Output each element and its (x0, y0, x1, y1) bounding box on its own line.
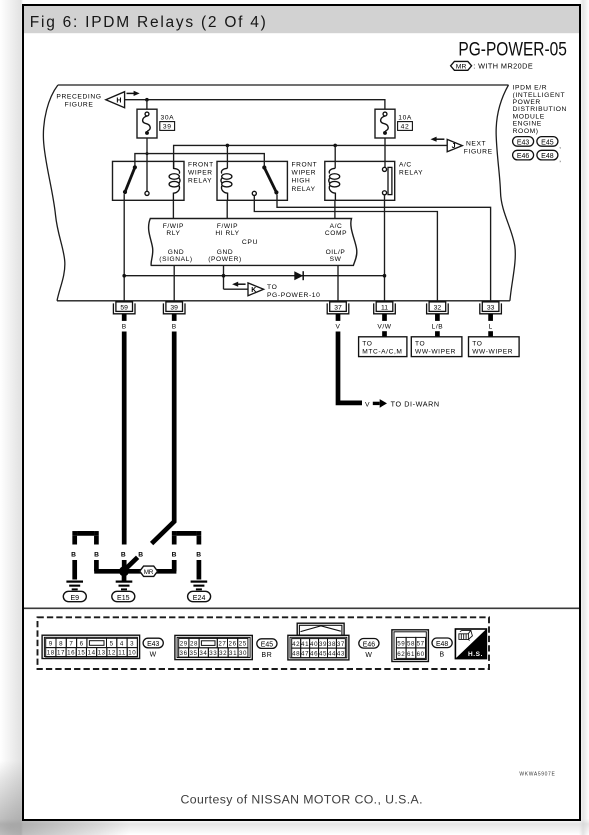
fuse 30A (#39) (137, 109, 175, 138)
IPDM E/R outer torn-edge boundary (43, 85, 515, 301)
svg-text:28: 28 (190, 641, 198, 648)
svg-text:V: V (365, 401, 370, 408)
svg-text:37: 37 (334, 304, 342, 311)
svg-text:10: 10 (128, 650, 136, 657)
legend connector E48 face (392, 630, 429, 662)
node: junction fuse output / contact feed rail (146, 152, 149, 155)
svg-text:WIPER: WIPER (292, 170, 317, 177)
svg-text:E15: E15 (117, 594, 130, 602)
legend dashed frame (38, 617, 490, 669)
svg-text:H: H (116, 98, 121, 105)
svg-text:TO DI-WARN: TO DI-WARN (391, 399, 440, 408)
node: junction J-line / relay2 coil (226, 144, 230, 148)
ground symbol E9 (66, 581, 83, 591)
svg-text:V/W: V/W (377, 324, 391, 331)
CPU box with torn side edges (149, 219, 357, 266)
svg-text:,: , (559, 158, 561, 164)
svg-text:PG-POWER-05: PG-POWER-05 (458, 39, 567, 60)
svg-text:COMP: COMP (325, 230, 347, 237)
svg-text:36: 36 (180, 650, 188, 657)
svg-text:HI RLY: HI RLY (215, 230, 239, 237)
ground symbol E15 (116, 571, 133, 590)
relay K2 switch arm (252, 165, 278, 195)
svg-text:Fig 6: IPDM Relays (2 Of 4): Fig 6: IPDM Relays (2 Of 4) (30, 14, 266, 31)
svg-text:FRONT: FRONT (292, 161, 318, 168)
svg-text:5: 5 (110, 640, 114, 647)
MR hexagon tag on ground bus (140, 566, 158, 576)
svg-text:B: B (121, 551, 126, 558)
svg-text:42: 42 (401, 123, 410, 130)
svg-text:(SIGNAL): (SIGNAL) (159, 256, 192, 263)
svg-text:B: B (439, 651, 444, 658)
flag H: PRECEDING FIGURE (56, 91, 139, 109)
ground symbol E24 (191, 581, 208, 591)
svg-text:44: 44 (328, 650, 336, 657)
node: junction H-line / 30A fuse (145, 98, 149, 102)
svg-text:B: B (172, 324, 177, 331)
svg-text:3: 3 (130, 640, 134, 647)
svg-text:62: 62 (397, 651, 405, 658)
svg-text:46: 46 (310, 650, 318, 657)
label FRONT WIPER RELAY (188, 161, 214, 184)
legend oval E48 + color B (432, 638, 452, 658)
legend oval E45 + color BR (257, 639, 277, 659)
svg-text:GND: GND (217, 249, 233, 256)
svg-text:17: 17 (57, 650, 65, 657)
svg-text:HIGH: HIGH (292, 178, 311, 185)
wire: relay2 arm contact to pin 33 (277, 195, 491, 303)
svg-text:B: B (94, 551, 99, 558)
connector oval E45 (537, 137, 562, 150)
wire color labels B row (71, 551, 202, 558)
legend E46 pin numbers (292, 641, 345, 658)
wire stub pin 32 to box TO WW-WIPER (435, 331, 440, 337)
label A/C RELAY (399, 161, 423, 176)
svg-text:29: 29 (180, 641, 188, 648)
svg-text:MTC-A/C,M: MTC-A/C,M (362, 348, 402, 355)
svg-text:B: B (172, 551, 177, 558)
svg-text:13: 13 (98, 650, 106, 657)
svg-text:58: 58 (407, 641, 415, 648)
svg-text:: WITH MR20DE: : WITH MR20DE (473, 62, 533, 71)
wire stub pin 59 + color label B (122, 314, 127, 331)
svg-text:K: K (251, 287, 256, 294)
svg-text:GND: GND (168, 249, 184, 256)
svg-text:E48: E48 (436, 641, 448, 648)
svg-text:15: 15 (77, 650, 85, 657)
svg-text:B: B (71, 551, 76, 558)
svg-text:Courtesy of NISSAN MOTOR CO.,: Courtesy of NISSAN MOTOR CO., U.S.A. (181, 793, 423, 807)
legend oval E46 + color W (359, 639, 379, 659)
svg-text:SW: SW (330, 256, 342, 263)
svg-text:9: 9 (49, 640, 53, 647)
connector oval E9 (63, 591, 86, 602)
svg-text:E24: E24 (193, 594, 206, 602)
pin 37 terminal (327, 302, 349, 314)
svg-text:32: 32 (434, 304, 442, 311)
wire stub pin 33 + color label L (488, 314, 493, 331)
svg-text:(POWER): (POWER) (208, 256, 242, 263)
legend oval E43 + color W (143, 638, 163, 658)
svg-text:E45: E45 (541, 140, 554, 147)
svg-text:27: 27 (218, 641, 226, 648)
wire: relay1 coil to CPU F/WIP RLY (172, 200, 174, 218)
box TO MTC-A/C,M (359, 337, 407, 357)
svg-text:E46: E46 (363, 641, 375, 648)
svg-text:60: 60 (417, 651, 425, 658)
node: junction ground rail / GND(POWER) (222, 274, 226, 278)
svg-text:WIPER: WIPER (188, 170, 213, 177)
svg-text:59: 59 (120, 304, 128, 311)
svg-text:BR: BR (262, 652, 273, 659)
svg-text:TO: TO (415, 340, 425, 347)
thick wire V from pin 37 to DI-WARN (338, 332, 440, 409)
svg-text:25: 25 (239, 641, 247, 648)
svg-text:IPDM E/R: IPDM E/R (513, 85, 548, 92)
svg-text:F/WIP: F/WIP (217, 223, 238, 230)
svg-text:4: 4 (120, 640, 124, 647)
svg-text:16: 16 (67, 650, 75, 657)
relay K3 A/C RELAY box (325, 161, 395, 200)
legend H.S. mark (455, 629, 486, 659)
svg-text:RELAY: RELAY (188, 178, 212, 185)
svg-text:E9: E9 (70, 594, 79, 602)
wire: 10A fuse output down to A/C relay contact (384, 138, 386, 167)
svg-text:39: 39 (163, 123, 172, 130)
svg-text:L/B: L/B (432, 324, 444, 331)
wire stub pin 37 + color label V (336, 314, 341, 331)
svg-text:61: 61 (407, 651, 415, 658)
svg-text:POWER: POWER (513, 99, 541, 106)
separator rule above legend (24, 607, 579, 609)
svg-text:ENGINE: ENGINE (513, 121, 542, 128)
legend E45 pin numbers (180, 641, 247, 657)
pin 11 terminal (374, 302, 396, 314)
svg-text:41: 41 (301, 641, 309, 648)
box TO WW-WIPER (pin 33) (469, 337, 520, 357)
diode D1 on ground rail (294, 271, 303, 280)
svg-text:E45: E45 (261, 642, 273, 649)
svg-text:WW-WIPER: WW-WIPER (415, 348, 456, 355)
svg-text:39: 39 (170, 304, 178, 311)
legend connector E46 tab (297, 623, 344, 635)
legend E48 pin numbers (397, 641, 424, 659)
svg-text:TO: TO (362, 340, 372, 347)
wire: A/C coil to CPU A/C COMP (334, 200, 336, 218)
svg-text:34: 34 (199, 650, 207, 657)
svg-text:48: 48 (292, 650, 300, 657)
wire stub pin 39 + color label B (172, 314, 177, 331)
svg-text:L: L (488, 324, 492, 331)
svg-text:TO: TO (472, 340, 482, 347)
svg-text:B: B (122, 324, 127, 331)
legend connector E45 face (175, 635, 252, 659)
wire stub pin 11 to box TO MTC-A/C,M (382, 331, 387, 337)
svg-text:6: 6 (80, 640, 84, 647)
svg-text:E43: E43 (517, 140, 530, 147)
svg-text:NEXT: NEXT (466, 140, 486, 147)
wire: 30A fuse top drop (146, 100, 148, 110)
svg-text:E43: E43 (147, 641, 159, 648)
label FRONT WIPER HIGH RELAY (292, 161, 318, 193)
legend E43 pin numbers (47, 640, 137, 656)
svg-text:FIGURE: FIGURE (65, 101, 94, 108)
wire: ground rail (124, 275, 384, 277)
svg-text:30A: 30A (161, 115, 175, 122)
svg-text:43: 43 (337, 650, 345, 657)
ground branch to E9 (gaps at labels) (75, 533, 97, 579)
wire: coil rail to NEXT FIGURE (J line) (174, 145, 448, 168)
header: page code PG-POWER-05 (458, 39, 567, 60)
wire: contact feed rail to both wiper relay arms (135, 154, 264, 168)
svg-text:A/C: A/C (399, 161, 412, 168)
svg-text:11: 11 (118, 650, 126, 657)
wire: H feed line to fuses (125, 100, 385, 110)
svg-text:35: 35 (189, 650, 197, 657)
svg-text:8: 8 (59, 640, 63, 647)
svg-text:7: 7 (69, 640, 73, 647)
svg-text:OIL/P: OIL/P (326, 249, 346, 256)
pin 33 terminal (480, 302, 502, 314)
svg-text:,: , (559, 144, 561, 150)
svg-text:V: V (336, 324, 341, 331)
svg-text:W: W (365, 652, 372, 659)
svg-text:E46: E46 (517, 153, 530, 160)
CPU pin labels top row (163, 223, 347, 237)
svg-text:37: 37 (337, 641, 345, 648)
connector oval E46 (513, 150, 534, 160)
node: main ground junction (119, 566, 129, 576)
connector oval E43 (513, 137, 534, 147)
wire: CPU GND(SIGNAL) to pin 39 (173, 265, 175, 302)
svg-text:12: 12 (108, 650, 116, 657)
wire: A/C contact down to pin 11 (384, 195, 386, 302)
svg-text:F/WIP: F/WIP (163, 223, 184, 230)
svg-text:E48: E48 (541, 153, 554, 160)
svg-text:26: 26 (229, 641, 237, 648)
svg-text:47: 47 (301, 650, 309, 657)
pin 32 terminal (427, 302, 449, 314)
relay K3 coil (329, 168, 340, 200)
legend connector E43 face (42, 635, 140, 658)
wire stub pin 32 + color label L/B (432, 314, 444, 331)
wire stub pin 11 + color label V/W (377, 314, 391, 331)
svg-text:RELAY: RELAY (292, 186, 316, 193)
svg-text:WKWA5907E: WKWA5907E (519, 771, 555, 777)
svg-text:PRECEDING: PRECEDING (56, 93, 101, 100)
svg-text:(INTELLIGENT: (INTELLIGENT (513, 92, 566, 99)
flag J: NEXT FIGURE (431, 137, 493, 156)
svg-text:FIGURE: FIGURE (464, 148, 493, 155)
svg-text:14: 14 (88, 650, 96, 657)
thick wire B from pin 59 down to ground junction (gap at label) (122, 332, 127, 545)
relay K2 coil (221, 168, 232, 200)
svg-text:W: W (150, 652, 157, 659)
svg-text:11: 11 (381, 304, 388, 311)
svg-text:40: 40 (310, 641, 318, 648)
svg-text:MR: MR (144, 569, 154, 576)
svg-text:A/C: A/C (330, 223, 343, 230)
svg-text:45: 45 (319, 650, 327, 657)
svg-text:RLY: RLY (166, 230, 180, 237)
connector oval E48 (537, 150, 562, 163)
relay K2 FRONT WIPER HIGH RELAY box (217, 161, 287, 200)
pin 59 terminal (113, 302, 135, 314)
svg-text:CPU: CPU (242, 239, 258, 246)
svg-text:42: 42 (292, 641, 300, 648)
svg-text:B: B (138, 551, 143, 558)
svg-text:38: 38 (328, 641, 336, 648)
relay K1 coil (169, 161, 180, 200)
title bar (24, 6, 579, 33)
svg-text:33: 33 (487, 304, 495, 311)
svg-text:39: 39 (319, 641, 327, 648)
wire: relay2 coil top drop (226, 145, 228, 168)
relay K1 switch arm (123, 165, 149, 195)
svg-text:TO: TO (267, 284, 277, 291)
svg-text:59: 59 (397, 641, 405, 648)
node: junction ground rail / relay1 wire (122, 274, 126, 278)
relay K1 FRONT WIPER RELAY box (113, 161, 185, 200)
legend connector E46 face (288, 635, 349, 660)
node: junction ground rail / A-C contact wire (383, 274, 387, 278)
ground bus bar (94, 569, 176, 574)
wire: CPU GND(POWER) drop (223, 265, 225, 289)
svg-text:WW-WIPER: WW-WIPER (472, 348, 513, 355)
svg-text:FRONT: FRONT (188, 161, 214, 168)
IPDM E/R name label (513, 85, 567, 135)
svg-text:30: 30 (239, 650, 247, 657)
svg-text:57: 57 (417, 641, 425, 648)
ground branch to E24 (gaps at labels) (174, 533, 199, 579)
wire stub pin 33 to box TO WW-WIPER (488, 331, 493, 337)
flag K: TO PG-POWER-10 (224, 282, 321, 299)
wire: relay1 arm contact down to pin 59 (123, 194, 125, 302)
svg-text:H.S.: H.S. (468, 651, 483, 658)
wire: relay2 aux contact to pin 32 (254, 195, 437, 302)
relay K3 plunger contact (382, 167, 391, 195)
svg-text:10A: 10A (398, 115, 412, 122)
pin 39 terminal (163, 302, 185, 314)
wire: 30A fuse output down into relay 1 common contact (146, 138, 148, 191)
svg-text:MR: MR (456, 63, 467, 70)
svg-text:33: 33 (209, 650, 217, 657)
svg-text:32: 32 (219, 650, 227, 657)
node: junction J-line / A-C relay coil (333, 144, 337, 148)
svg-text:MODULE: MODULE (513, 113, 545, 120)
svg-text:ROOM): ROOM) (513, 128, 539, 135)
svg-text:DISTRIBUTION: DISTRIBUTION (513, 106, 567, 113)
svg-text:RELAY: RELAY (399, 170, 423, 177)
wire: CPU OIL/P SW to pin 37 (337, 265, 339, 302)
svg-text:31: 31 (229, 650, 237, 657)
svg-text:J: J (452, 143, 456, 150)
header: MR badge hexagon with note (451, 61, 533, 70)
box TO WW-WIPER (pin 32) (411, 337, 462, 357)
svg-text:PG-POWER-10: PG-POWER-10 (267, 292, 320, 299)
thick wire B from pin 39 down then diagonal to ground junction (gap at label) (152, 332, 175, 544)
svg-text:18: 18 (47, 650, 55, 657)
svg-text:B: B (196, 551, 201, 558)
connector oval E15 (112, 591, 135, 602)
connector oval E24 (188, 591, 211, 602)
wire: A/C relay coil top drop (334, 145, 336, 168)
CPU pin labels bottom row (159, 249, 345, 263)
fuse 10A (#42) (375, 109, 412, 138)
wire: relay2 coil to CPU F/WIP HI RLY (226, 200, 228, 218)
